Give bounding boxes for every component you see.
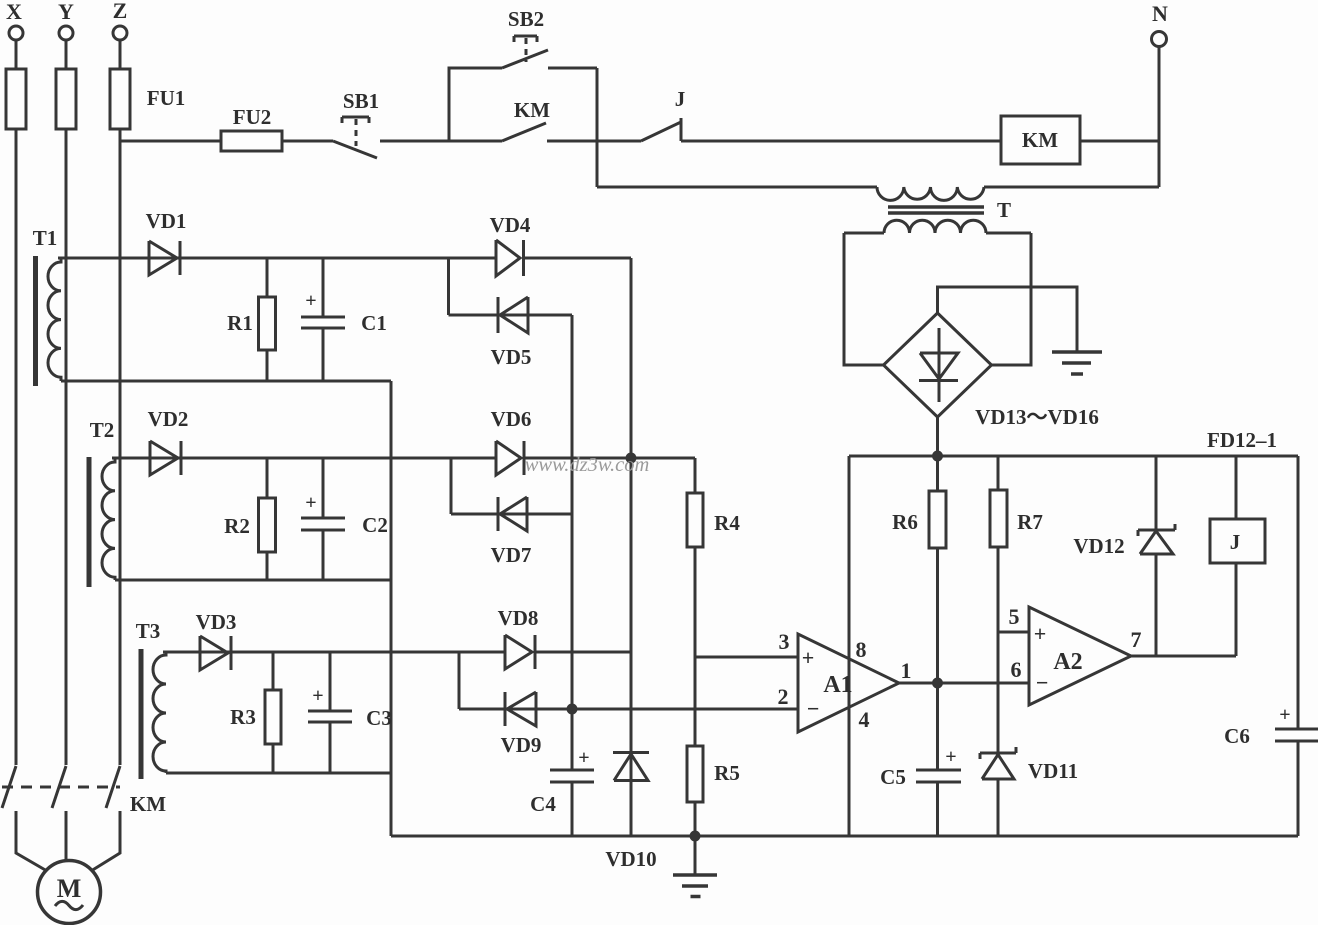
svg-text:7: 7 — [1131, 627, 1142, 652]
svg-text:+: + — [305, 492, 316, 514]
svg-text:VD12: VD12 — [1073, 534, 1124, 558]
svg-text:+: + — [312, 685, 323, 707]
svg-text:+: + — [1034, 621, 1047, 646]
svg-text:VD13〜VD16: VD13〜VD16 — [975, 405, 1099, 429]
svg-text:FU2: FU2 — [233, 105, 272, 129]
svg-text:C1: C1 — [361, 311, 387, 335]
svg-text:X: X — [6, 0, 22, 24]
svg-text:C4: C4 — [530, 792, 556, 816]
svg-text:VD9: VD9 — [501, 733, 542, 757]
svg-text:KM: KM — [514, 98, 550, 122]
svg-text:4: 4 — [859, 707, 870, 732]
svg-text:−: − — [807, 696, 820, 721]
svg-text:VD4: VD4 — [490, 213, 531, 237]
svg-text:T: T — [997, 198, 1011, 222]
svg-text:SB1: SB1 — [343, 89, 379, 113]
svg-text:6: 6 — [1011, 657, 1022, 682]
svg-text:VD10: VD10 — [605, 847, 656, 871]
svg-text:R7: R7 — [1017, 510, 1043, 534]
svg-text:SB2: SB2 — [508, 7, 544, 31]
svg-text:VD6: VD6 — [491, 407, 532, 431]
svg-text:KM: KM — [130, 792, 166, 816]
svg-text:VD5: VD5 — [491, 345, 532, 369]
svg-text:J: J — [1230, 530, 1241, 554]
svg-text:Z: Z — [113, 0, 128, 23]
svg-text:C3: C3 — [366, 706, 392, 730]
svg-text:R3: R3 — [230, 705, 256, 729]
svg-text:T2: T2 — [90, 418, 115, 442]
svg-text:R1: R1 — [227, 311, 253, 335]
svg-text:C6: C6 — [1224, 724, 1250, 748]
svg-text:3: 3 — [779, 629, 790, 654]
svg-text:+: + — [305, 290, 316, 312]
svg-text:T3: T3 — [136, 619, 161, 643]
svg-text:A2: A2 — [1053, 649, 1082, 675]
svg-text:VD1: VD1 — [146, 209, 187, 233]
svg-text:VD7: VD7 — [491, 543, 532, 567]
svg-text:+: + — [578, 747, 589, 769]
svg-text:C2: C2 — [362, 513, 388, 537]
svg-text:J: J — [675, 87, 686, 111]
svg-text:R6: R6 — [892, 510, 918, 534]
svg-text:+: + — [945, 746, 956, 768]
svg-text:VD8: VD8 — [498, 606, 539, 630]
svg-text:VD11: VD11 — [1028, 759, 1078, 783]
svg-text:R4: R4 — [714, 511, 740, 535]
svg-text:−: − — [1036, 670, 1049, 695]
svg-text:+: + — [802, 645, 815, 670]
svg-text:Y: Y — [58, 0, 74, 24]
svg-text:VD2: VD2 — [148, 407, 189, 431]
svg-text:N: N — [1152, 1, 1168, 26]
svg-text:T1: T1 — [33, 226, 58, 250]
svg-text:R5: R5 — [714, 761, 740, 785]
svg-text:8: 8 — [856, 637, 867, 662]
svg-text:R2: R2 — [224, 514, 250, 538]
svg-text:A1: A1 — [823, 672, 852, 698]
svg-text:C5: C5 — [880, 765, 906, 789]
svg-text:+: + — [1279, 704, 1290, 726]
svg-text:1: 1 — [901, 658, 912, 683]
svg-text:M: M — [57, 874, 82, 903]
svg-text:5: 5 — [1009, 604, 1020, 629]
svg-text:FU1: FU1 — [147, 86, 186, 110]
svg-text:2: 2 — [778, 684, 789, 709]
svg-text:www.dz3w.com: www.dz3w.com — [525, 454, 650, 476]
svg-text:VD3: VD3 — [196, 610, 237, 634]
svg-text:FD12–1: FD12–1 — [1207, 428, 1277, 452]
svg-text:KM: KM — [1022, 128, 1058, 152]
